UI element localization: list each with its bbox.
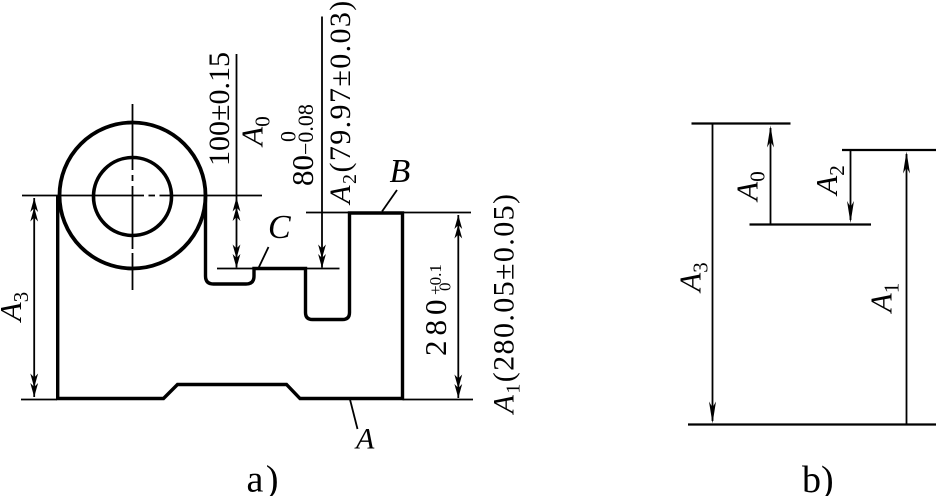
leader A	[350, 400, 358, 430]
horizontal centerline / extension	[22, 195, 262, 197]
svg-text:a): a)	[247, 459, 282, 496]
dimension line 100 / A0	[236, 54, 238, 268]
svg-text:80: 80	[285, 155, 320, 186]
svg-text:100±0.15: 100±0.15	[203, 52, 236, 166]
part outline	[58, 196, 403, 399]
svg-text:A: A	[354, 423, 375, 456]
label 80 0/-0.08	[276, 104, 321, 186]
link A2 line	[850, 150, 852, 220]
bore inner circle	[94, 158, 172, 236]
vertical centerline	[132, 104, 134, 290]
bottom-left extension line	[21, 399, 57, 401]
link A1 line	[906, 154, 908, 425]
svg-text:280: 280	[418, 295, 453, 357]
leader B	[382, 190, 397, 212]
link A3 line	[712, 124, 714, 422]
boss outer circle	[60, 123, 206, 269]
top surface line	[692, 122, 791, 124]
B surface extension line	[306, 212, 471, 214]
arrow A2 down	[847, 201, 854, 223]
label 280 +0.1/0	[418, 264, 455, 356]
bottom-right extension line	[403, 399, 474, 401]
svg-text:C: C	[268, 209, 291, 246]
arrow A0 up	[767, 126, 774, 148]
dimension line 280 / A1	[457, 215, 459, 398]
svg-text:B: B	[390, 153, 411, 190]
arrow A1 up	[903, 152, 910, 174]
dimension line A3	[33, 198, 35, 397]
link A0 line	[770, 128, 772, 225]
arrow A3 down	[709, 402, 716, 424]
C surface extension line	[217, 268, 340, 270]
middle surface line	[750, 223, 872, 225]
right upper surface line	[842, 149, 936, 151]
leader C	[259, 247, 269, 268]
dimension line 80 / A2	[321, 17, 323, 268]
svg-text:A1(280.05±0.05): A1(280.05±0.05)	[488, 193, 525, 416]
svg-text:b): b)	[802, 459, 834, 496]
svg-text:−0.08: −0.08	[293, 104, 318, 155]
svg-text:0: 0	[436, 283, 455, 292]
bottom surface line	[688, 423, 936, 425]
